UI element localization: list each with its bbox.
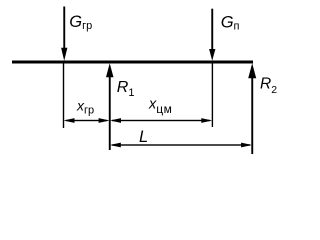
- force G_p arrow (down): [209, 9, 215, 61]
- svg-text:L: L: [139, 128, 148, 146]
- reaction R2 arrow (up): [248, 63, 256, 154]
- beam (horizontal bar): [12, 61, 253, 64]
- reaction R1 arrow (up): [106, 63, 114, 150]
- dimension x_gr (line and arrowheads): [64, 118, 110, 123]
- extension line under G_gr: [63, 64, 64, 129]
- dimension L (line and arrowheads): [110, 143, 252, 148]
- force G_gr arrow (down): [61, 7, 67, 61]
- extension line under G_p: [212, 64, 213, 128]
- dimension x_cm (line and arrowheads): [110, 118, 212, 123]
